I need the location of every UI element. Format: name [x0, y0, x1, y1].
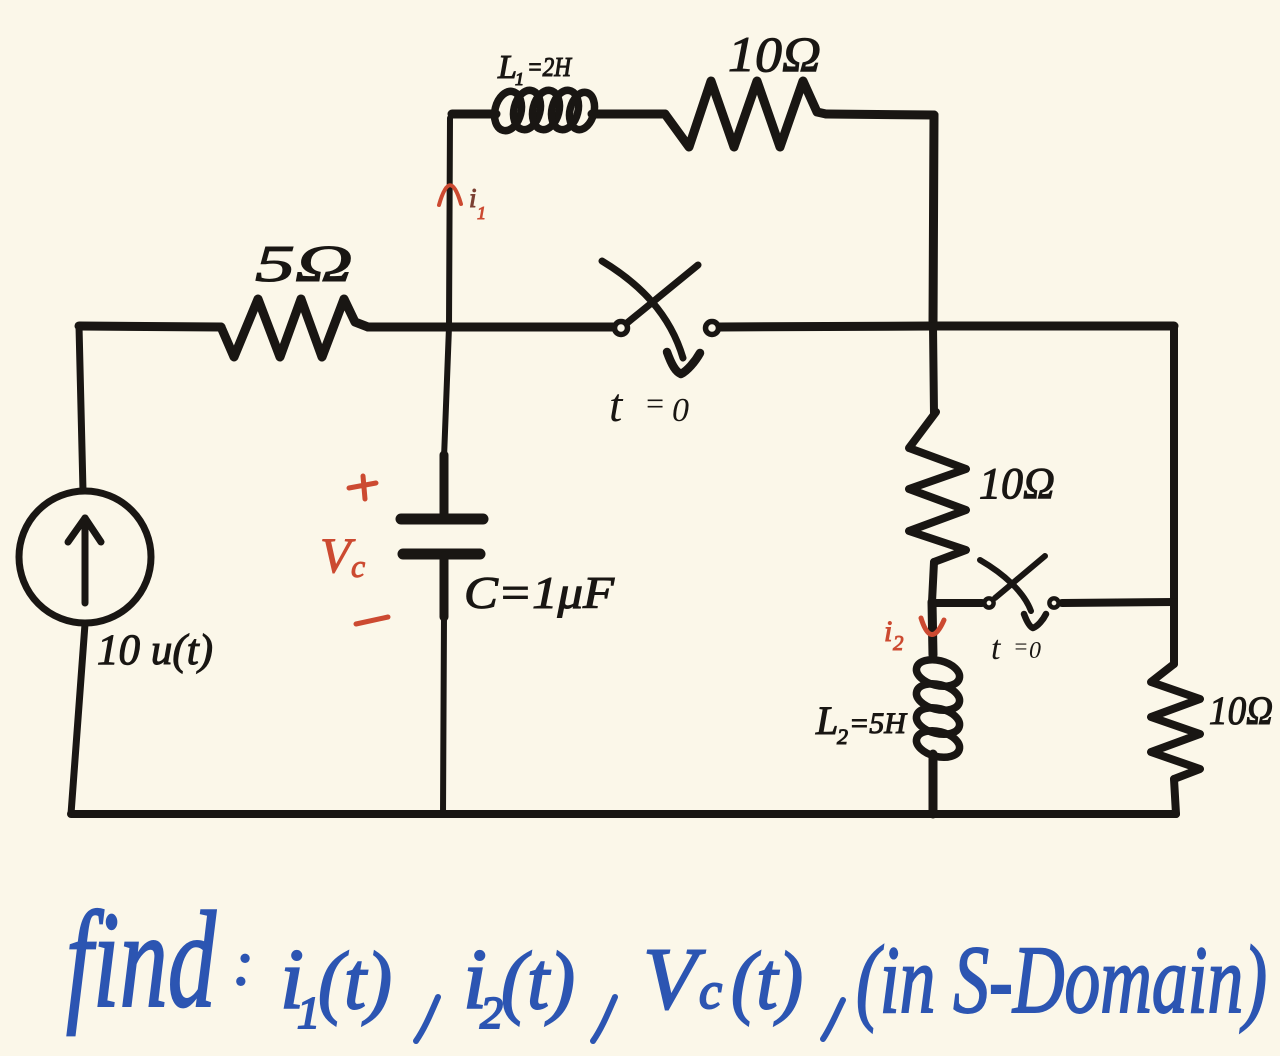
svg-text:c: c — [699, 963, 722, 1020]
svg-text:=2H: =2H — [527, 52, 572, 82]
svg-text:(t): (t) — [731, 935, 803, 1026]
svg-text:t: t — [991, 630, 1002, 667]
svg-text:10 u(t): 10 u(t) — [97, 627, 213, 674]
svg-text:2: 2 — [480, 987, 503, 1038]
svg-text:i: i — [884, 615, 892, 648]
svg-text:L: L — [815, 698, 838, 743]
svg-text:1: 1 — [477, 203, 486, 223]
svg-text:(t): (t) — [501, 935, 575, 1026]
svg-text:10Ω: 10Ω — [728, 26, 821, 82]
svg-text:(t): (t) — [318, 935, 392, 1026]
svg-text:10Ω: 10Ω — [979, 459, 1055, 508]
svg-text:t: t — [609, 379, 624, 432]
svg-text:=: = — [644, 385, 666, 421]
svg-text:find: find — [66, 883, 217, 1036]
svg-text:C=1μF: C=1μF — [464, 567, 615, 618]
svg-text:(in S-Domain): (in S-Domain) — [856, 926, 1267, 1033]
svg-text:1: 1 — [515, 69, 524, 89]
svg-text:2: 2 — [837, 724, 848, 749]
svg-text:c: c — [351, 548, 365, 584]
svg-text:1: 1 — [297, 987, 320, 1038]
svg-text:=5H: =5H — [849, 707, 908, 740]
svg-text:0: 0 — [672, 392, 689, 429]
svg-text:i: i — [469, 183, 477, 213]
svg-text:V: V — [643, 931, 706, 1028]
svg-text:=: = — [1013, 634, 1029, 659]
svg-text:0: 0 — [1029, 638, 1041, 664]
svg-text:2: 2 — [893, 631, 904, 655]
svg-text::: : — [233, 930, 254, 998]
svg-text:L: L — [497, 49, 517, 86]
svg-text:10Ω: 10Ω — [1209, 688, 1273, 733]
svg-text:5Ω: 5Ω — [255, 236, 353, 293]
